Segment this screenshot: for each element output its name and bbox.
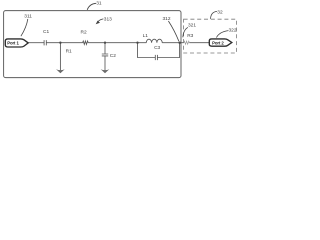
svg-text:32: 32 xyxy=(217,9,223,15)
svg-text:311: 311 xyxy=(24,14,32,20)
svg-text:L1: L1 xyxy=(143,33,149,39)
svg-text:Port 2: Port 2 xyxy=(212,40,224,45)
svg-text:321: 321 xyxy=(188,23,196,29)
svg-text:R2: R2 xyxy=(81,29,87,35)
svg-text:312: 312 xyxy=(163,16,171,22)
svg-text:31: 31 xyxy=(96,1,102,7)
svg-text:322: 322 xyxy=(229,27,237,33)
svg-text:313: 313 xyxy=(104,16,112,22)
svg-text:Port 1: Port 1 xyxy=(7,41,19,46)
svg-text:C1: C1 xyxy=(43,29,49,35)
svg-text:R1: R1 xyxy=(66,49,72,55)
svg-text:R3: R3 xyxy=(187,33,193,39)
svg-text:C2: C2 xyxy=(110,53,116,59)
svg-text:C3: C3 xyxy=(154,45,160,51)
